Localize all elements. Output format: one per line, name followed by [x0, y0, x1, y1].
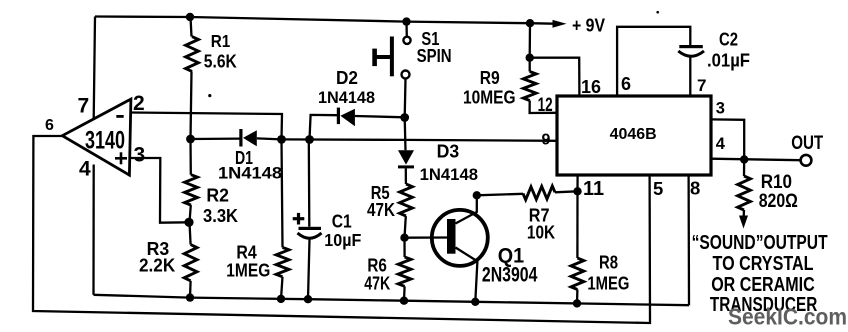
resistor R9 10MEG: [529, 23, 532, 58]
svg-text:SPIN: SPIN: [417, 45, 452, 66]
C1 polarity plus: [293, 217, 305, 220]
svg-text:1N4148: 1N4148: [318, 89, 375, 107]
wire: pin 6 up over to C2 and pin 7: [617, 27, 690, 96]
svg-text:6: 6: [621, 74, 631, 94]
svg-text:SeekIC.com: SeekIC.com: [728, 304, 847, 330]
svg-text:C2: C2: [719, 29, 738, 50]
svg-text:R2: R2: [206, 185, 229, 206]
capacitor C1 10uF (electrolytic): [308, 140, 311, 227]
svg-text:4: 4: [79, 158, 91, 181]
resistor R1 5.6K: [191, 17, 192, 37]
svg-text:3: 3: [716, 100, 725, 118]
ink speck: [208, 94, 211, 97]
resistor R10 820ohm: [743, 160, 746, 177]
svg-text:2N3904: 2N3904: [482, 264, 538, 287]
wire: op-amp pin 2 to node: [131, 113, 283, 140]
svg-text:5.6K: 5.6K: [204, 50, 238, 71]
wire: 4046 pin 8 vertical: [687, 175, 690, 305]
svg-text:D2: D2: [336, 68, 358, 88]
svg-text:6: 6: [45, 117, 54, 134]
svg-text:4: 4: [716, 135, 726, 153]
top +9V rail: [95, 17, 530, 24]
svg-text:R8: R8: [599, 252, 618, 273]
+9V arrow: [530, 22, 554, 25]
svg-text:+ 9V: + 9V: [572, 16, 605, 36]
resistor R7 10K (horizontal): [477, 194, 523, 196]
svg-text:10MEG: 10MEG: [463, 88, 516, 108]
IC U2 4046B: [557, 96, 711, 175]
capacitor C2 .01uF: [679, 45, 703, 48]
svg-text:“SOUND”OUTPUT: “SOUND”OUTPUT: [692, 232, 828, 254]
svg-text:820Ω: 820Ω: [759, 191, 798, 212]
svg-text:12: 12: [538, 95, 553, 116]
svg-text:2.2K: 2.2K: [139, 255, 176, 276]
diode D3 1N4148 (pointing down): [398, 150, 414, 164]
svg-text:11: 11: [583, 178, 604, 200]
svg-text:9: 9: [542, 132, 551, 149]
OUT terminal: [801, 155, 812, 166]
svg-text:D3: D3: [437, 142, 460, 162]
svg-text:8: 8: [690, 178, 700, 199]
resistor R5 47K: [400, 184, 413, 216]
wire: left vertical from rail to op-amp pin 7: [94, 17, 95, 120]
wire: 4046 pin 3 to pin 4 node: [711, 119, 744, 159]
svg-text:47K: 47K: [364, 273, 390, 294]
wire: D2 node down to D3: [404, 118, 407, 151]
svg-text:1MEG: 1MEG: [226, 260, 270, 281]
svg-text:1N4148: 1N4148: [218, 165, 282, 183]
resistor R2 3.3K: [189, 139, 192, 175]
switch S1 SPIN: [405, 22, 408, 37]
wire: op-amp output pin 6 feedback to 4046 pin 5: [33, 136, 650, 323]
resistor R3 2.2K: [190, 222, 191, 244]
diode D1 1N4148: [191, 137, 240, 140]
svg-text:5: 5: [653, 178, 663, 199]
svg-text:16: 16: [581, 77, 601, 97]
svg-text:R10: R10: [761, 172, 792, 193]
junction dots: [186, 13, 194, 21]
resistor R4 1MEG: [282, 139, 283, 247]
wire: pin 4 to OUT: [711, 159, 800, 161]
svg-text:OUT: OUT: [791, 133, 823, 154]
svg-text:C1: C1: [332, 211, 352, 232]
diode D2 1N4148: [310, 115, 338, 140]
wire: S1 bottom to D2 node: [404, 79, 407, 118]
svg-text:10K: 10K: [527, 222, 556, 243]
resistor R6 47K: [403, 238, 405, 257]
svg-text:3: 3: [134, 144, 146, 167]
wire: ground bus (bottom inner): [94, 295, 690, 305]
svg-text:R1: R1: [211, 31, 231, 51]
svg-text:10µF: 10µF: [324, 230, 361, 250]
transistor Q1 2N3904: [432, 210, 488, 266]
svg-text:47K: 47K: [367, 199, 396, 220]
svg-text:4046B: 4046B: [610, 126, 657, 143]
wire: op-amp pin 4 down to ground bus: [92, 165, 94, 295]
svg-text:.01µF: .01µF: [707, 51, 750, 71]
wire: node row to 4046 pin 9: [282, 139, 558, 140]
svg-text:OR CERAMIC: OR CERAMIC: [711, 274, 815, 296]
svg-text:1N4148: 1N4148: [420, 166, 478, 184]
svg-text:7: 7: [78, 95, 90, 118]
wire: op-amp pin 3 to R2/R3 junction: [130, 158, 189, 223]
svg-text:R9: R9: [480, 68, 500, 88]
svg-text:3.3K: 3.3K: [203, 205, 239, 226]
op-amp U1 3140: [62, 99, 131, 175]
svg-text:3140: 3140: [85, 127, 125, 155]
resistor R8 1MEG: [576, 175, 578, 191]
wire: branch to 4046 pin 16: [530, 58, 580, 96]
svg-text:TO CRYSTAL: TO CRYSTAL: [713, 253, 814, 275]
svg-text:1MEG: 1MEG: [587, 273, 629, 294]
svg-text:7: 7: [697, 76, 706, 95]
